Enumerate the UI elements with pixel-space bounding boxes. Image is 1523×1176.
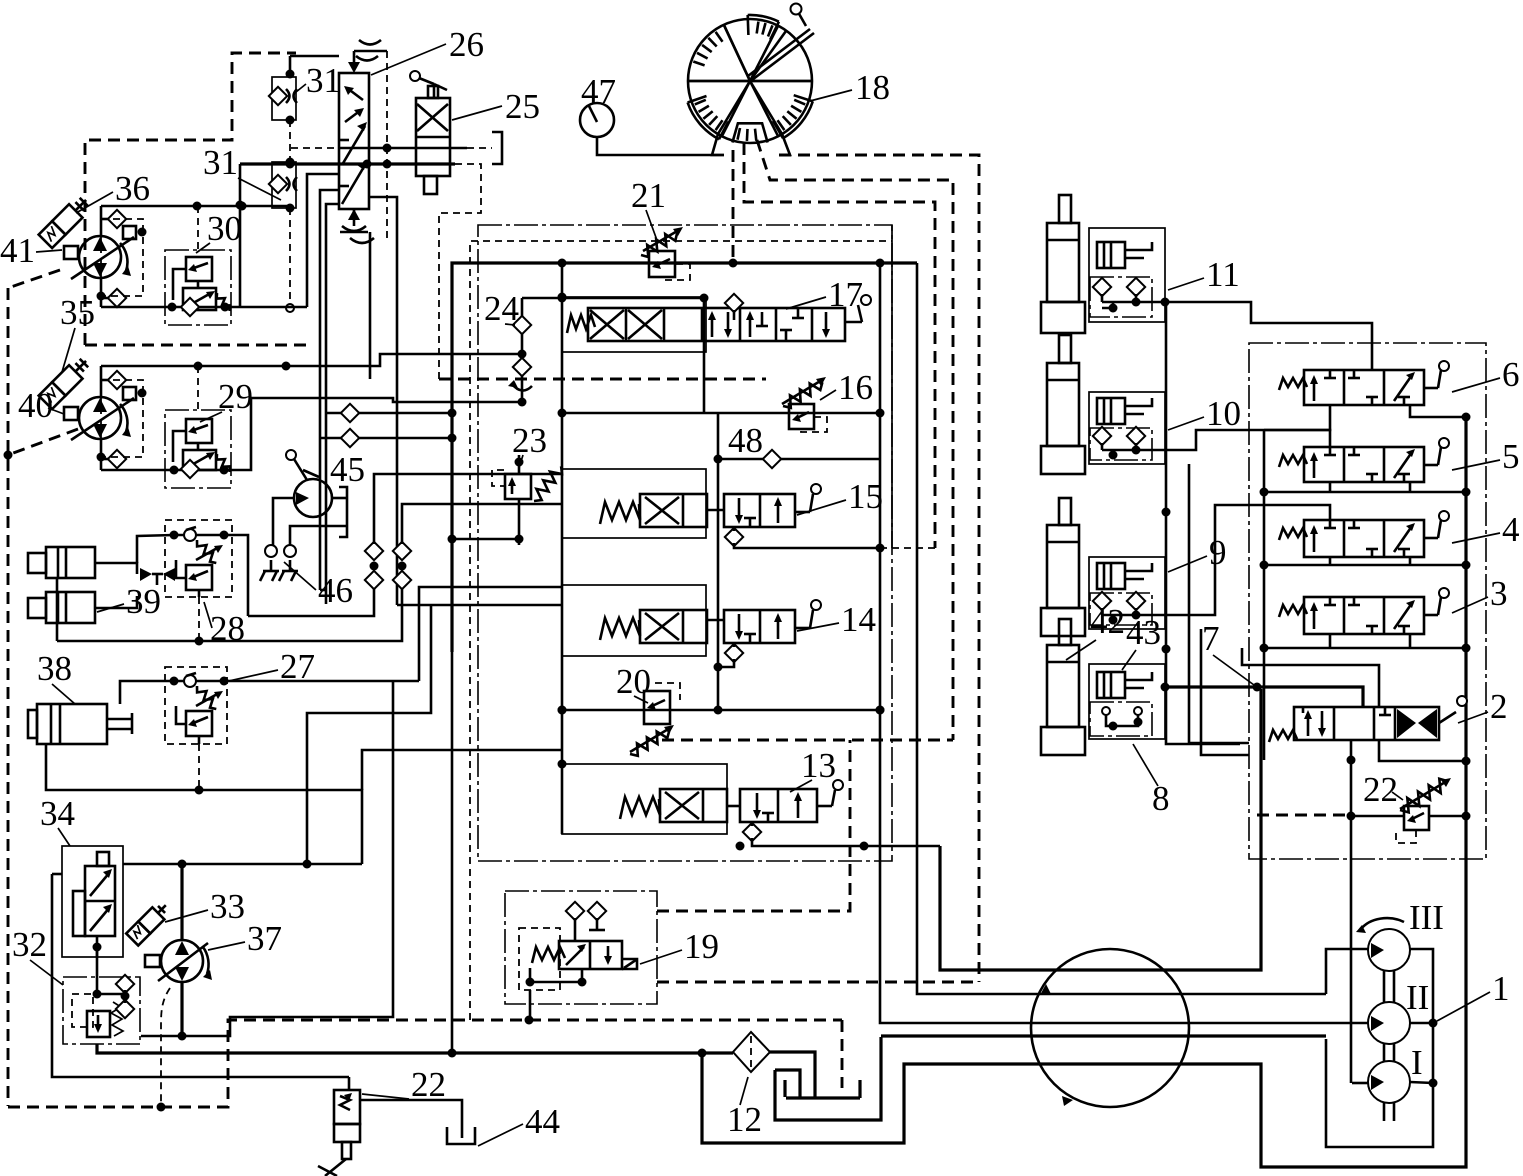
lock block 9 (1089, 557, 1165, 629)
svg-text:13: 13 (801, 746, 836, 785)
wire (bottom return loop) (702, 420, 1466, 1167)
relief valve 23 (492, 455, 562, 545)
svg-text:44: 44 (525, 1102, 560, 1141)
svg-text:31: 31 (203, 143, 238, 182)
valve 15 (directional spool) (562, 469, 821, 546)
svg-text:22: 22 (411, 1065, 446, 1104)
wire (39 to 28 loop) (137, 535, 174, 563)
dashed pilots to 19 (657, 981, 979, 984)
svg-text:8: 8 (1152, 779, 1170, 818)
valve 25 (solenoid cartridge) (410, 71, 450, 194)
wire (48 line) (718, 458, 880, 461)
relief block 28 (165, 520, 232, 597)
svg-text:33: 33 (210, 887, 245, 926)
svg-text:42: 42 (1090, 602, 1125, 641)
wire (pump 37 column) (180, 864, 183, 940)
valve 2 (travel valve) (1269, 696, 1467, 742)
lock block 10 (1089, 392, 1165, 464)
block 19 (steering priority unit) (505, 891, 657, 1020)
wire (dashed pilot bus y=379) (439, 378, 766, 381)
svg-text:17: 17 (828, 275, 863, 314)
svg-text:21: 21 (631, 176, 666, 215)
wire (shuttle risers) (374, 474, 562, 536)
svg-text:39: 39 (126, 582, 161, 621)
wire (38 bottom to bus y=790) (46, 744, 362, 864)
wire (feed to valve 14 box) (419, 587, 562, 681)
dashed diagonal (pump 36 link) (8, 270, 60, 288)
cylinder 42 (outrigger cylinder) (1041, 619, 1085, 755)
pump 36/41 (variable displacement pump) (64, 206, 147, 307)
relief valve 21 (641, 227, 690, 280)
wire (22 inlet) (348, 1077, 351, 1090)
cylinder (for lock block 9) (1041, 498, 1085, 636)
dashed drain (pump 37 case) (161, 988, 170, 1107)
wire (pump 36 top bus) (101, 205, 290, 208)
svg-text:19: 19 (684, 927, 719, 966)
valve 34 (priority valve) (62, 846, 123, 994)
svg-text:40: 40 (18, 386, 53, 425)
cylinder (for lock block 11) (1041, 195, 1085, 333)
svg-text:II: II (1406, 978, 1429, 1017)
tank 44 (447, 1127, 475, 1144)
svg-text:43: 43 (1126, 613, 1161, 652)
wire (block 10 to valve 5) (1165, 430, 1330, 450)
relief valve 16 (782, 377, 827, 432)
relief block 30 (165, 250, 231, 325)
wire (y=298 pilot) (522, 297, 704, 300)
wire (feed y=605 loop) (397, 604, 562, 607)
tank (main reservoir) (769, 1037, 881, 1120)
wire (bus y=650 via 28) (198, 597, 200, 641)
wire (check lines to bus) (326, 412, 452, 415)
valve 6 (1279, 361, 1449, 405)
valve 5 (1279, 438, 1449, 482)
svg-text:I: I (1411, 1043, 1423, 1082)
valve 3 (1279, 588, 1449, 634)
svg-text:7: 7 (1202, 619, 1220, 658)
svg-text:4: 4 (1502, 510, 1520, 549)
wire (left riser x=240) (239, 164, 242, 308)
lock block 11 (1089, 228, 1170, 322)
wire (cylinder bus x=1166) (1166, 302, 1240, 744)
svg-text:2: 2 (1490, 687, 1508, 726)
wire (feed to valve 13 box) (362, 750, 562, 790)
svg-text:31: 31 (306, 61, 341, 100)
valve 26 (vertical pilot valve) (339, 40, 387, 243)
wire (bus y=148) (291, 147, 339, 149)
svg-text:34: 34 (40, 794, 75, 833)
svg-text:48: 48 (728, 421, 763, 460)
compensator 35 (tilted control unit) (39, 355, 93, 409)
svg-text:35: 35 (60, 293, 95, 332)
double check valves (pilot shuttle pair) (365, 536, 411, 596)
wire (14 tail) (718, 659, 734, 667)
wire (bus y=164) (240, 162, 455, 165)
wire (pump 40 top bus) (101, 354, 522, 366)
wire (38 to 27 loop) (120, 681, 174, 704)
pump group 1 (triple gear pump) (1326, 918, 1438, 1147)
wire (riser x=1189) (1189, 464, 1249, 743)
dashed left border (7, 288, 10, 1106)
vent 46 (drain to tank pair) (260, 545, 298, 581)
wire (right bank buses) (1410, 405, 1466, 417)
wire (15 tail to dashed bus) (734, 543, 880, 548)
wire (22R line y=816) (1351, 815, 1404, 818)
svg-text:24: 24 (484, 289, 519, 328)
svg-text:16: 16 (838, 368, 873, 407)
check column 24 (508, 298, 532, 407)
dashed tank pilot drop (841, 1020, 844, 1088)
svg-text:15: 15 (848, 477, 883, 516)
wire (left column x=52) (52, 874, 349, 1077)
wire (gauge to steering) (597, 137, 724, 155)
svg-text:1: 1 (1492, 969, 1510, 1008)
wire (bus y=710) (562, 709, 880, 712)
wire (pump 36 bottom bus) (101, 306, 307, 309)
dashed box (pump 40 drain) (101, 380, 143, 457)
valve 14 (directional spool) (562, 585, 821, 662)
compensator 33 (tilted unit) (126, 900, 172, 946)
center block enclosure (dash-dot) (478, 225, 892, 861)
svg-text:30: 30 (207, 209, 242, 248)
dashed bus (pilot return) (8, 1020, 842, 1107)
svg-text:36: 36 (115, 169, 150, 208)
wire (valve 26 lower port drops) (307, 174, 339, 307)
wire (22 outlet to tank 44) (360, 1100, 462, 1138)
check (valve 17 pilot) (725, 294, 743, 312)
wire (riser x=1201) (1201, 629, 1249, 755)
wire (center verticals) (561, 263, 564, 834)
wire (bus y=1053) (97, 1044, 733, 1053)
block 32 (pilot reducing block) (63, 975, 140, 1044)
svg-text:45: 45 (330, 450, 365, 489)
pump 37 (gear pump) (145, 940, 212, 982)
wire (dashed pilot lines from steering) (779, 155, 979, 982)
dashed enclosure (pump circuit 2) (85, 344, 310, 347)
bracket (pilot port connector) (492, 132, 502, 164)
svg-text:28: 28 (210, 609, 245, 648)
wire (bus y=864) (123, 863, 362, 866)
wire (dashed pilot line right of valve 26) (386, 51, 388, 240)
relief block 27 (165, 667, 229, 744)
compensator 36 (tilted control unit) (39, 194, 93, 248)
wire (block 9 to valve 4) (1165, 505, 1330, 615)
dashed diagonal (pump 40 to left border) (8, 429, 78, 455)
svg-text:47: 47 (581, 72, 616, 111)
relief valve 20 (630, 683, 680, 756)
wire (13 tail bus) (752, 838, 940, 846)
steering unit 18 (hand metering wheel) (688, 4, 814, 156)
dashed enclosure (pump circuit 1) (85, 53, 296, 345)
valve 4 (1279, 511, 1449, 557)
wire (pump 40 bottom bus) (101, 398, 522, 470)
wire (line 7 from block 8 to valve 2) (1165, 687, 1363, 707)
svg-text:14: 14 (841, 600, 876, 639)
svg-text:23: 23 (512, 421, 547, 460)
wire (check 31 risers) (289, 56, 292, 74)
svg-text:37: 37 (247, 919, 282, 958)
svg-text:6: 6 (1502, 355, 1520, 394)
filter 12 (733, 1032, 770, 1072)
cylinder (for lock block 10) (1041, 335, 1085, 474)
svg-text:25: 25 (505, 87, 540, 126)
svg-text:3: 3 (1490, 574, 1508, 613)
svg-text:18: 18 (855, 68, 890, 107)
svg-text:20: 20 (616, 662, 651, 701)
lock block 8 (with pilot valve 43) (1089, 664, 1165, 739)
svg-text:III: III (1409, 898, 1444, 937)
wire (bus y=413) (562, 412, 880, 415)
svg-text:38: 38 (37, 649, 72, 688)
wire (32 to bus y=1036) (141, 681, 393, 1036)
cylinder 39 (twin steering cylinders) (28, 547, 175, 623)
torque converter (big circle) (1031, 949, 1189, 1107)
wire (y=764 stub) (561, 763, 564, 766)
gauge 47 (pressure gauge) (580, 103, 614, 137)
svg-text:11: 11 (1206, 255, 1240, 294)
cylinder 38 (boom cylinder) (28, 704, 132, 744)
check valve 31 (upper) (269, 70, 297, 125)
valve 17 (main directional valve) (562, 295, 871, 352)
wire (suction bus to pumps) (881, 1034, 1326, 1037)
svg-text:22: 22 (1363, 770, 1398, 809)
wire (x=452 lower segment) (451, 652, 454, 1053)
wire (main bus y=263) (452, 263, 917, 652)
svg-text:32: 32 (12, 925, 47, 964)
check valve 31 (lower) (269, 158, 297, 213)
dash-dot enclosure (right valve bank) (1249, 343, 1486, 859)
svg-text:29: 29 (218, 377, 253, 416)
relief block 29 (165, 410, 231, 488)
svg-text:10: 10 (1206, 394, 1241, 433)
svg-text:46: 46 (318, 571, 353, 610)
svg-text:5: 5 (1502, 437, 1520, 476)
valve 13 (directional spool) (562, 764, 843, 841)
pump 40/35 (variable displacement pump) (64, 366, 147, 470)
wire (34 down to 32) (96, 947, 99, 957)
dashed box (pump 36 drain) (101, 219, 143, 296)
relief valve 22 (right) (1396, 778, 1451, 843)
valve 22 (foot relief, lower left) (318, 1090, 360, 1176)
svg-text:26: 26 (449, 25, 484, 64)
motor 45 (fan motor) (273, 450, 347, 546)
svg-text:41: 41 (0, 231, 35, 270)
svg-text:9: 9 (1209, 533, 1227, 572)
wire (block 11 to valve 6) (1165, 302, 1372, 370)
svg-text:12: 12 (727, 1100, 762, 1139)
inner dashed enclosure (470, 241, 892, 1020)
wire (x=452 branches) (452, 538, 519, 541)
